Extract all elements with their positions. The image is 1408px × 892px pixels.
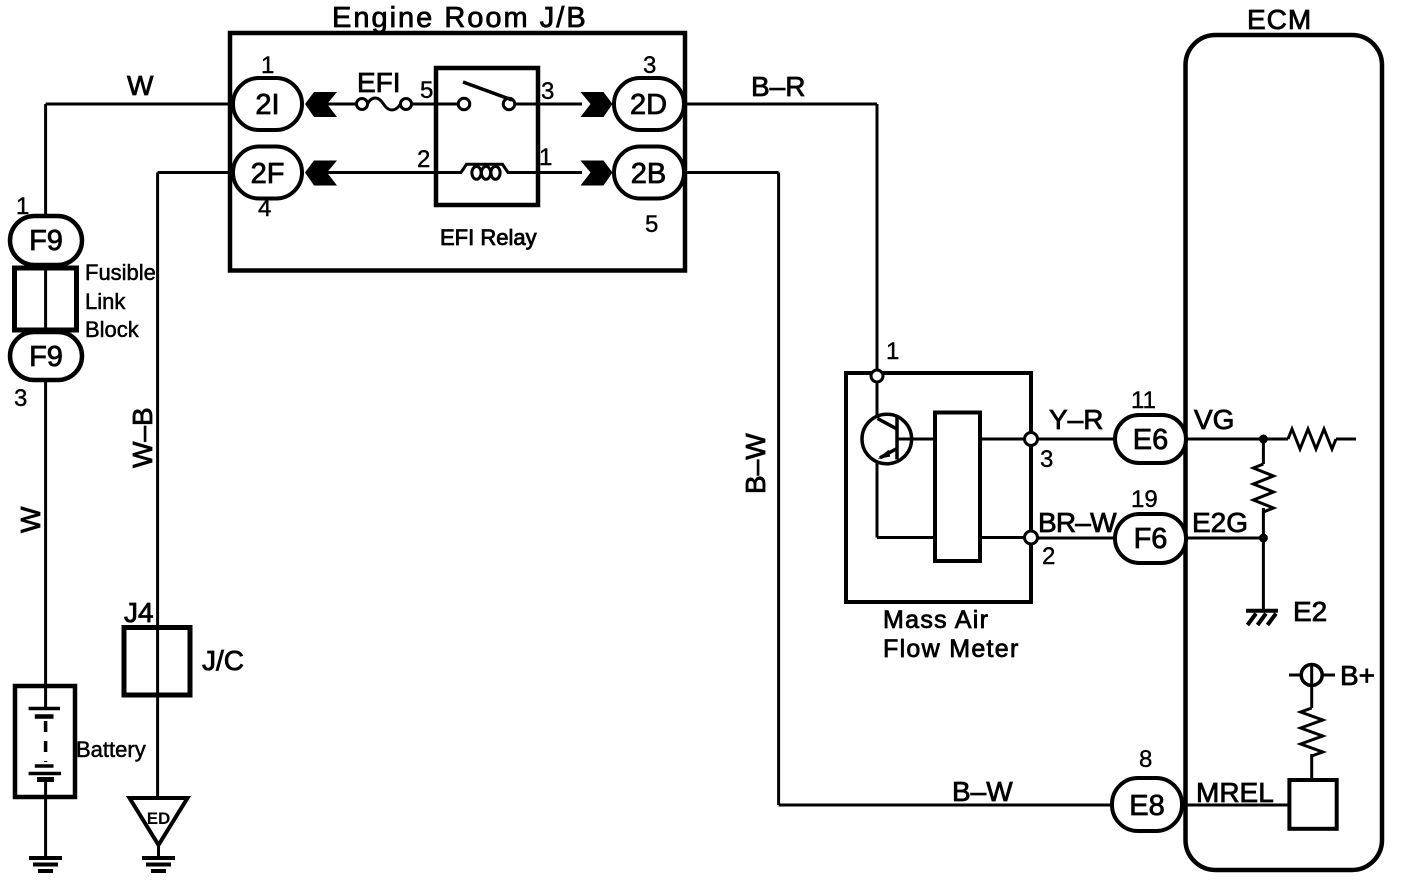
svg-text:ECM: ECM [1247, 4, 1312, 35]
svg-text:2I: 2I [255, 89, 279, 121]
wire relay coil row [327, 171, 462, 174]
relay switch contacts [458, 82, 515, 110]
wire B-R horizontal from 2D [683, 103, 877, 106]
svg-text:5: 5 [420, 77, 433, 104]
svg-text:F6: F6 [1134, 523, 1168, 555]
connector 2D [614, 78, 684, 130]
wire B-W vertical long drop [777, 173, 780, 806]
svg-text:1: 1 [261, 52, 274, 79]
connector F6 [1115, 514, 1186, 563]
svg-text:2B: 2B [631, 158, 666, 190]
svg-text:B–W: B–W [740, 433, 771, 494]
MAF sensing resistor block [935, 413, 980, 562]
svg-text:Link: Link [85, 289, 126, 314]
connector E8 [1112, 778, 1182, 831]
wire resistor block to node 2 [980, 536, 1025, 539]
Mass Air Flow Meter box [846, 373, 1031, 602]
wire W-B vertical to J/C and ED ground [156, 173, 159, 801]
connector 2I [233, 78, 302, 130]
wire F6 to E2G junction [1186, 537, 1263, 540]
wire fuse to relay pin 5 [326, 103, 357, 106]
junction dot E2G [1259, 534, 1268, 543]
MAF pin 2 node [1025, 531, 1038, 544]
svg-text:4: 4 [258, 195, 271, 222]
svg-text:19: 19 [1131, 486, 1158, 513]
ground below ED [142, 858, 175, 871]
svg-text:Fusible: Fusible [85, 260, 156, 285]
wire E2G junction down to E2 ground [1262, 538, 1265, 610]
wire resistor block to node 3 [980, 438, 1025, 441]
svg-text:3: 3 [1040, 446, 1053, 473]
MAF pin 3 node [1025, 433, 1038, 446]
wire B-W horizontal to E8 [779, 804, 1114, 807]
wire node 3 to E6 [1037, 438, 1116, 441]
wire W-B horizontal from 2F [158, 171, 233, 174]
svg-text:Battery: Battery [76, 737, 146, 762]
svg-text:EFI: EFI [357, 67, 401, 98]
MREL driver box [1289, 780, 1336, 829]
svg-text:EFI Relay: EFI Relay [440, 225, 537, 250]
svg-text:F9: F9 [29, 341, 63, 373]
resistor vertical B+ [1301, 708, 1323, 756]
svg-text:Block: Block [85, 317, 140, 342]
svg-text:E6: E6 [1133, 424, 1168, 456]
svg-text:8: 8 [1139, 746, 1152, 773]
Engine Room J/B box [230, 33, 685, 271]
battery [15, 686, 75, 797]
svg-text:E2: E2 [1293, 596, 1327, 627]
svg-text:3: 3 [541, 78, 554, 105]
wire MAF pin1 to transistor [876, 382, 879, 415]
svg-text:MREL: MREL [1196, 777, 1274, 808]
svg-text:1: 1 [539, 144, 552, 171]
arrow into 2D [581, 92, 613, 117]
svg-text:5: 5 [645, 211, 658, 238]
ground below battery [29, 858, 62, 871]
svg-text:B–W: B–W [952, 776, 1013, 807]
svg-text:E8: E8 [1129, 790, 1164, 822]
wire B-R vertical down to MAF pin 1 [876, 104, 879, 370]
wire node 2 to F6 [1037, 537, 1116, 540]
svg-text:VG: VG [1194, 404, 1234, 435]
svg-text:Y–R: Y–R [1049, 404, 1103, 435]
connector 2B [614, 147, 684, 199]
connector E6 [1115, 415, 1186, 463]
wire F9 to battery vertical [44, 378, 47, 688]
svg-text:J4: J4 [124, 597, 154, 628]
svg-text:11: 11 [1131, 387, 1156, 414]
arrow into 2B [581, 161, 613, 186]
svg-text:W–B: W–B [127, 407, 158, 468]
junction dot VG [1259, 435, 1268, 444]
ground triangle ED [130, 798, 188, 845]
svg-text:W: W [15, 506, 46, 533]
svg-text:2: 2 [1042, 543, 1055, 570]
arrow into 2I [305, 92, 337, 117]
resistor vertical VG to E2G [1253, 464, 1273, 512]
svg-text:B–R: B–R [751, 71, 805, 102]
relay coil [461, 164, 508, 179]
svg-text:Engine Room J/B: Engine Room J/B [332, 2, 588, 34]
svg-text:B+: B+ [1340, 660, 1375, 691]
fuse F9 bottom [10, 332, 82, 380]
svg-text:BR–W: BR–W [1038, 507, 1117, 538]
wire relay pin 3 to 2D arrow [514, 103, 582, 106]
svg-text:ED: ED [147, 809, 171, 828]
fuse EFI [357, 98, 412, 110]
wire W horizontal from 2I to left drop [46, 103, 233, 106]
svg-text:2D: 2D [630, 89, 667, 121]
svg-text:3: 3 [643, 52, 656, 79]
svg-text:Flow Meter: Flow Meter [883, 635, 1020, 663]
EFI relay box [436, 68, 538, 205]
svg-text:E2G: E2G [1192, 507, 1248, 538]
wire transistor base to resistor block [898, 438, 935, 441]
connector 2F [233, 147, 302, 199]
svg-text:F9: F9 [29, 225, 63, 257]
MAF pin 1 node [871, 370, 883, 382]
svg-text:W: W [127, 70, 154, 101]
wire MREL from E8 to box [1186, 804, 1290, 807]
wire battery to ground [44, 795, 47, 858]
wire VG junction down to resistor [1262, 439, 1265, 464]
ECM box [1186, 35, 1383, 870]
wire B-W horizontal from 2B [683, 171, 779, 174]
svg-text:2F: 2F [251, 158, 285, 190]
wire B+ to resistor to MREL box [1310, 685, 1313, 708]
arrow into 2F [305, 161, 337, 186]
wire E6 to VG junction and resistor [1186, 438, 1288, 441]
transistor Q1 [862, 414, 912, 464]
svg-text:3: 3 [14, 385, 27, 412]
fusible link block [15, 268, 77, 330]
junction connector J/C box [124, 628, 190, 696]
svg-text:J/C: J/C [202, 645, 244, 676]
resistor horizontal at VG [1288, 429, 1336, 449]
B+ symbol [1289, 674, 1335, 677]
fuse F9 top [10, 216, 82, 265]
svg-text:Mass Air: Mass Air [883, 606, 989, 634]
ground E2 [1246, 611, 1278, 625]
wire W vertical drop to F9 [44, 104, 47, 218]
svg-text:1: 1 [886, 338, 899, 365]
wire transistor emitter down and to resistor block [876, 462, 879, 538]
svg-text:2: 2 [417, 146, 430, 173]
